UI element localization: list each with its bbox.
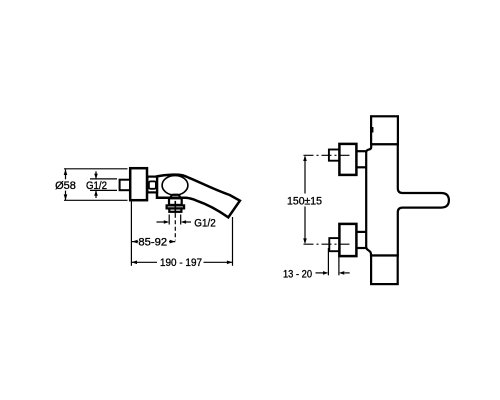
svg-text:13 - 20: 13 - 20 — [283, 269, 312, 281]
svg-text:190 - 197: 190 - 197 — [160, 257, 202, 269]
svg-text:G1/2: G1/2 — [194, 217, 216, 229]
svg-text:Ø58: Ø58 — [55, 180, 76, 192]
svg-text:G1/2: G1/2 — [86, 180, 107, 192]
svg-text:85-92: 85-92 — [138, 236, 167, 248]
svg-text:150±15: 150±15 — [287, 195, 322, 207]
